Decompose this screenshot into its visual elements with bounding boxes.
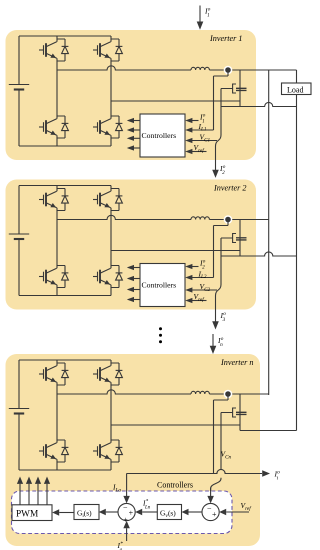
wire inductor to output node, inverter 1 (209, 69, 296, 71)
filter capacitor C2 (236, 220, 247, 257)
svg-text:Controllers: Controllers (157, 481, 193, 490)
IGBT Q1a top-left with diode (39, 39, 68, 61)
svg-text:Ioi: Ioi (274, 470, 281, 482)
controllers detail dashed box (12, 491, 233, 534)
return wire to neutral bus, inverter n (240, 430, 297, 432)
IGBT Q1b top-right with diode (93, 39, 122, 61)
filter capacitor C1 (236, 70, 247, 107)
VCn arrow into S2 (207, 488, 214, 503)
summing junction S2 (202, 503, 219, 520)
controllers box, inverter 1 (140, 114, 185, 157)
IGBT Qnb top-right with diode (93, 363, 122, 385)
IGBT Q2d bottom-right with diode (93, 266, 122, 288)
output current arrow Io3 (212, 310, 219, 330)
IGBT Qnc bottom-left with diode (39, 440, 68, 462)
svg-text:Inverter 2: Inverter 2 (213, 184, 247, 193)
voltage sense bracket across Cn (233, 408, 236, 417)
svg-text:I*a: I*a (117, 541, 124, 550)
Gi(s) block (74, 505, 99, 520)
arrow S1 to Gi (99, 509, 118, 516)
svg-text:Inverter n: Inverter n (220, 358, 254, 367)
left leg wire inverter 1 (56, 36, 58, 146)
inverter block 1 background (6, 30, 257, 160)
battery Vn (9, 360, 29, 470)
ILa feedback arrow into S1 (123, 474, 130, 504)
battery V2 (9, 186, 29, 296)
filter inductor L1 (191, 67, 209, 70)
load feed wire corner (296, 70, 298, 83)
right leg wire inverter 1 (110, 36, 112, 146)
arrow Gv to S1 (135, 509, 157, 516)
phase output wire with crossover hop, inverter 2 (57, 215, 191, 219)
filter inductor Ln (191, 391, 209, 394)
top rail wire inverter n (19, 359, 111, 361)
gate drive arrows from PWM (17, 477, 50, 505)
output node dot, inverter n (224, 390, 233, 399)
top rail wire inverter 1 (19, 35, 111, 37)
bottom current input arrow into S1 (123, 521, 130, 541)
output current arrow Ion (210, 334, 217, 354)
bottom rail wire inverter 2 (19, 295, 111, 297)
inductor current sense wire, inverter n (214, 394, 229, 474)
bridge return wire to capacitor bottom, inverter 2 (111, 250, 240, 252)
phase output wire with crossover hop, inverter 1 (57, 66, 191, 70)
capacitor voltage sense wire, inverter 1 (216, 89, 233, 161)
Gv(s) block (157, 505, 181, 520)
IGBT Qna top-left with diode (39, 363, 68, 385)
controller input arrows, inverter 2 (185, 264, 217, 303)
capacitor voltage sense wire, inverter 2 (216, 238, 233, 310)
svg-text:Controllers: Controllers (142, 131, 177, 140)
svg-text:Controllers: Controllers (142, 281, 177, 290)
load box (282, 83, 312, 95)
inductor current sense wire, inverter 2 (214, 220, 229, 278)
top rail wire inverter 2 (19, 185, 111, 187)
summing junction S1 (118, 503, 135, 520)
output node dot, inverter 2 (224, 215, 233, 224)
current signal wire to PWM controller with hop (127, 469, 263, 473)
output bus wire vertical (268, 70, 270, 395)
capacitor voltage sense wire, inverter n (211, 413, 233, 497)
IGBT Q1d bottom-right with diode (93, 116, 122, 138)
IGBT Q1c bottom-left with diode (39, 116, 68, 138)
arrow Gi to PWM (52, 509, 74, 516)
phase output wire with crossover hop, inverter n (57, 390, 191, 394)
bridge return wire to capacitor bottom, inverter n (111, 424, 240, 426)
svg-text:+: + (212, 510, 217, 519)
filter capacitor Cn (236, 394, 247, 431)
output node dot, inverter 1 (224, 66, 233, 75)
svg-text:Io2: Io2 (219, 164, 226, 176)
right leg wire inverter 2 (110, 186, 112, 296)
svg-text:PWM: PWM (16, 510, 38, 520)
svg-text:Io3: Io3 (220, 311, 227, 323)
voltage sense bracket across C2 (233, 234, 236, 243)
right leg wire inverter n (110, 360, 112, 470)
controller input arrows, inverter 1 (185, 118, 217, 154)
gate drive arrows from controllers, inverter 2 (127, 265, 140, 302)
bridge return wire to capacitor bottom, inverter 1 (111, 100, 240, 102)
svg-text:+: + (129, 509, 134, 518)
left leg wire inverter n (56, 360, 58, 470)
controllers box, inverter 2 (140, 264, 185, 307)
svg-text:−: − (123, 504, 128, 513)
IGBT Q2a top-left with diode (39, 189, 68, 211)
IGBT Qnd bottom-right with diode (93, 440, 122, 462)
bottom rail wire inverter n (19, 469, 111, 471)
PWM box (12, 505, 52, 521)
inductor current sense wire, inverter 1 (214, 70, 229, 130)
svg-text:Inverter 1: Inverter 1 (209, 34, 243, 43)
return wire to neutral bus with hop over output bus, inverter 1 (221, 102, 297, 106)
gate drive arrows from controllers, inverter 1 (127, 118, 140, 151)
battery V1 (9, 36, 29, 146)
ellipsis dots for more inverters (159, 327, 162, 343)
inverter block 2 background (6, 180, 257, 310)
IGBT Q2c bottom-left with diode (39, 266, 68, 288)
inverter block n background (6, 354, 261, 546)
svg-text:Ion: Ion (217, 336, 224, 348)
return wire to neutral bus with hop over output bus, inverter 2 (221, 252, 297, 256)
svg-text:Io1: Io1 (204, 7, 211, 19)
wire inductor to output node, inverter 2 (209, 219, 268, 221)
filter inductor L2 (191, 217, 209, 220)
svg-text:Load: Load (287, 85, 303, 94)
arrow S2 to Gv (182, 509, 203, 516)
IGBT Q2b top-right with diode (93, 189, 122, 211)
Vref input arrow into S2 (219, 509, 249, 516)
bottom rail wire inverter 1 (19, 145, 111, 147)
output current arrow Io2 (212, 160, 219, 178)
wire inductor to output node, inverter n (209, 393, 268, 395)
total output current arrow (262, 470, 270, 476)
voltage sense bracket across C1 (233, 84, 236, 93)
left leg wire inverter 2 (56, 186, 58, 296)
neutral bus wire vertical (296, 95, 298, 431)
output current arrow Io1 (197, 6, 204, 30)
